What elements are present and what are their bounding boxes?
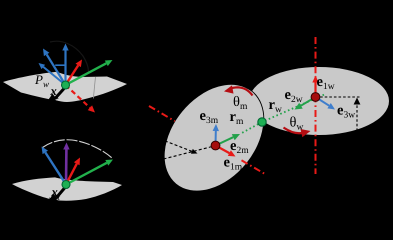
vector e2w (green) (295, 97, 316, 110)
theta_w rotation arrow (dark red arc) (284, 128, 311, 138)
blue arrow (lower sketch) (42, 147, 67, 185)
disk w (right ellipse) (249, 67, 389, 135)
sweep arc (lower sketch) (43, 140, 113, 159)
green arrow (lower sketch) (66, 160, 113, 185)
green dotted r_m segment (240, 122, 262, 134)
theta_m rotation arrow (dark red arc) (224, 85, 253, 95)
green arrow (right) upper sketch (66, 60, 113, 85)
vector e3w (blue) (316, 97, 336, 110)
red arrow (lower sketch) (66, 158, 80, 185)
vector e2m (green) (216, 134, 241, 146)
vector e1m (red down-right) (216, 146, 236, 157)
plane sheet P_w (upper sketch) (3, 72, 127, 102)
red arrow (up-right) upper sketch (66, 60, 83, 86)
crease line on sheet (93, 77, 95, 99)
black dashed radius arrow (disk m) (160, 139, 198, 154)
centre dot disk w (311, 93, 320, 102)
red dash-dot axis of disk m (lower-right segment) (242, 160, 266, 174)
centre dot disk m (211, 141, 220, 150)
black brush arrow x_t (upper) (47, 88, 65, 104)
red dash-dot axis of disk m (upper-left segment) (149, 106, 175, 121)
black dashed height line (horizontal) disk w (316, 96, 361, 98)
red dash-dot axis of disk w (vertical) (315, 37, 317, 174)
purple arrow (lower sketch) (63, 143, 69, 185)
blue right-angle tick (55, 64, 65, 66)
contact point dot (258, 118, 266, 126)
black brush arrow x_t (lower) (47, 188, 65, 205)
plane sheet (lower sketch) (12, 177, 122, 200)
green dotted r_w segment (262, 95, 324, 122)
vector e1w (red up) (312, 76, 318, 96)
black dashed height line (vertical with up arrow) disk w (354, 98, 361, 132)
disk m (left ellipse) (144, 65, 284, 211)
faint dome arc (upper sketch) (50, 41, 89, 72)
blue arrow b2 (up-left) upper sketch (43, 49, 66, 86)
black dashed line B to centre (disk m) (164, 146, 214, 159)
blue arrow b1 (up) upper sketch (62, 44, 68, 86)
blue arrow b3 (left-up) upper sketch (39, 63, 66, 85)
origin dot (lower sketch) (62, 181, 70, 189)
vector e3m (blue up) (213, 124, 219, 146)
red dashed arrow (down-right) upper sketch (66, 85, 96, 113)
origin dot (upper sketch) (62, 81, 70, 89)
